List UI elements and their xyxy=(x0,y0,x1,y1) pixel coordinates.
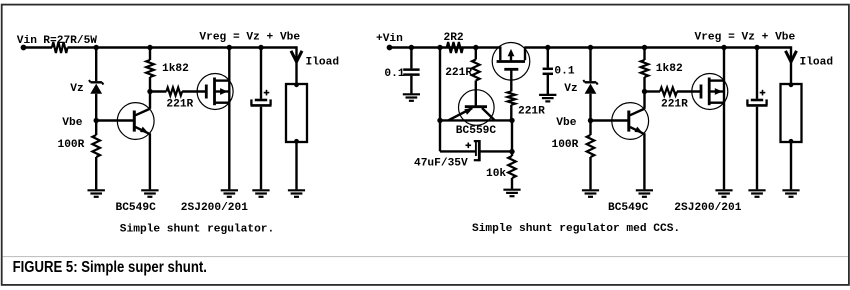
svg-text:BC559C: BC559C xyxy=(456,125,497,137)
svg-text:Vreg = Vz + Vbe: Vreg = Vz + Vbe xyxy=(199,32,300,44)
svg-text:221R: 221R xyxy=(661,98,688,110)
svg-text:2SJ200/201: 2SJ200/201 xyxy=(181,202,248,214)
svg-text:Vbe: Vbe xyxy=(62,117,82,129)
svg-text:FIGURE 5: Simple super shunt.: FIGURE 5: Simple super shunt. xyxy=(13,259,207,276)
svg-text:Iload: Iload xyxy=(306,57,340,69)
svg-text:Simple shunt regulator med CCS: Simple shunt regulator med CCS. xyxy=(472,223,680,235)
svg-text:0.1: 0.1 xyxy=(554,66,574,78)
svg-text:Vin: Vin xyxy=(17,35,37,47)
svg-text:BC549C: BC549C xyxy=(116,202,157,214)
svg-text:2SJ200/201: 2SJ200/201 xyxy=(674,202,741,214)
svg-text:Simple shunt regulator.: Simple shunt regulator. xyxy=(120,223,274,235)
svg-text:Vbe: Vbe xyxy=(556,117,576,129)
svg-text:1k82: 1k82 xyxy=(656,63,683,75)
svg-text:1k82: 1k82 xyxy=(162,63,189,75)
svg-text:221R: 221R xyxy=(518,106,545,118)
svg-text:Vz: Vz xyxy=(564,83,577,95)
svg-text:221R: 221R xyxy=(445,67,472,79)
svg-text:2R2: 2R2 xyxy=(444,32,464,44)
svg-text:47uF/35V: 47uF/35V xyxy=(414,158,468,170)
svg-text:Vz: Vz xyxy=(70,83,83,95)
svg-text:BC549C: BC549C xyxy=(608,202,649,214)
svg-text:R=27R/5W: R=27R/5W xyxy=(43,35,97,47)
svg-text:Vreg = Vz + Vbe: Vreg = Vz + Vbe xyxy=(695,32,796,44)
svg-text:+Vin: +Vin xyxy=(376,33,403,45)
svg-text:100R: 100R xyxy=(552,139,579,151)
svg-text:Iload: Iload xyxy=(800,57,834,69)
svg-text:10k: 10k xyxy=(486,168,506,180)
svg-text:100R: 100R xyxy=(58,139,85,151)
svg-text:0.1: 0.1 xyxy=(384,68,404,80)
svg-text:221R: 221R xyxy=(166,98,193,110)
